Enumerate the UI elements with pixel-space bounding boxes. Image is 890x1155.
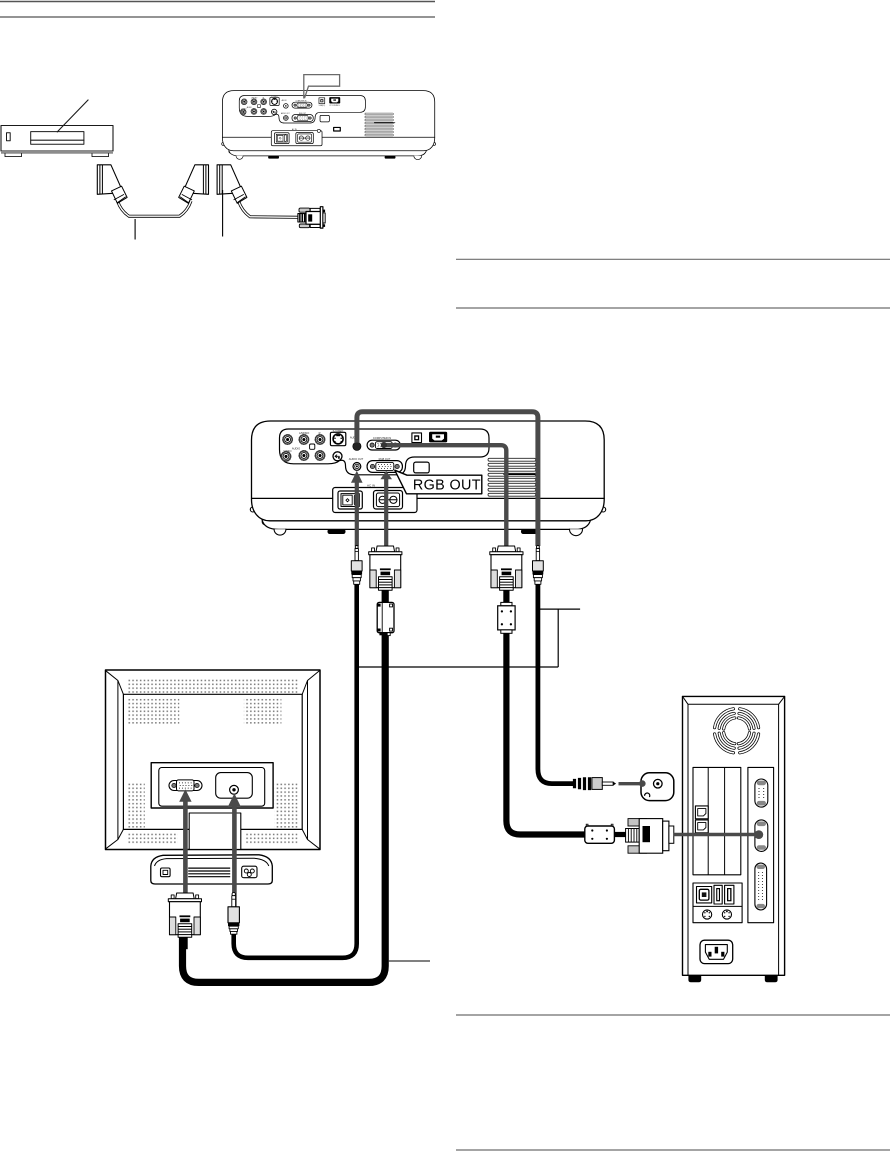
PC expansion slot area — [693, 767, 741, 874]
ferrite core 3 — [498, 602, 515, 633]
SCART cable (U between connectors) — [118, 201, 192, 216]
RGB cable callout line — [389, 960, 430, 962]
right column rule 4 (bottom) — [456, 1149, 890, 1151]
stand vents — [188, 868, 230, 877]
PC fan grille — [715, 709, 759, 753]
VGA plug 3 — [490, 546, 523, 602]
VGA plug 2 — [369, 546, 402, 602]
PC serial port — [755, 779, 768, 807]
right column rule 1 — [456, 258, 890, 260]
VCR/DVD player — [1, 126, 113, 157]
monitor outer frame — [106, 670, 321, 850]
header rule top — [0, 1, 435, 3]
vent dots left side patch — [128, 784, 145, 829]
projector rear view (top diagram) — [222, 91, 436, 160]
VCR callout line — [57, 100, 89, 133]
audio plug 4 — [533, 546, 544, 585]
vent dots bottom band right — [246, 833, 298, 844]
VGA plug to PC (pointing right) — [614, 819, 674, 854]
PC PS/2 ports — [703, 910, 732, 919]
VGA adapter plug — [298, 207, 325, 228]
RGB cable from COMPUTER IN right and down — [384, 445, 506, 546]
stand base — [151, 855, 272, 884]
RGB OUT label box with pointer — [395, 470, 482, 494]
vent dots top band — [128, 679, 298, 693]
monitor VGA port — [169, 780, 202, 791]
audio cable from AUDIO IN up over to PC side — [357, 412, 538, 546]
PC ethernet jack 1 — [695, 806, 708, 819]
PC case — [683, 696, 785, 975]
arrow into AUDIO OUT — [351, 471, 363, 546]
audio plug at monitor — [228, 892, 239, 934]
header rule lower — [0, 16, 435, 18]
SCART connector right (mirrored) — [179, 165, 209, 204]
PC port column — [748, 767, 774, 922]
monitor VGA arrow — [179, 789, 191, 894]
monitor bevel lines — [105, 670, 320, 849]
gray link VGA plug to PC port — [674, 833, 755, 837]
monitor audio port — [216, 773, 253, 799]
PC feet — [688, 975, 701, 982]
projector rear view (middle diagram) — [250, 421, 605, 536]
VGA plug at monitor — [168, 893, 201, 949]
audio plug 1 — [351, 546, 362, 585]
stand button — [161, 868, 171, 877]
bracket callout (cables not supplied) — [358, 609, 580, 667]
audio plug to PC (pointing right) — [573, 777, 616, 790]
arrow into RGB OUT — [380, 471, 392, 546]
RGB cable plug3 to PC — [506, 590, 585, 835]
stand power inlet — [242, 866, 257, 878]
PC ethernet jack 2 — [695, 820, 708, 833]
COMPUTER IN plug blob — [381, 442, 387, 448]
PC VGA port — [755, 820, 768, 852]
callout box to COMPUTER IN port — [304, 75, 340, 99]
SCART connector left — [97, 165, 127, 204]
monitor inner panel — [123, 694, 302, 829]
right column rule 2 — [456, 307, 890, 309]
PC power inlet — [700, 940, 733, 963]
PC parallel port — [755, 863, 767, 910]
RGB cable plug2 to monitor — [183, 590, 386, 982]
SCART cable callout line — [134, 219, 136, 240]
vent dots left patch — [128, 699, 179, 725]
PC USB-B port — [697, 887, 712, 903]
vent dots right side patch — [275, 784, 298, 829]
vent dots right patch — [244, 699, 282, 725]
PC USB/PS2 block — [693, 883, 742, 923]
ferrite core 2 — [377, 602, 394, 635]
ferrite core at PC VGA cable — [585, 824, 615, 843]
PC USB-A ports — [714, 885, 722, 904]
AUDIO IN jack plug blob — [353, 443, 361, 451]
audio cable plug4 to PC — [538, 582, 574, 784]
stand mount — [189, 813, 241, 849]
monitor audio arrow — [228, 793, 241, 908]
audio cable plug1 to monitor — [234, 582, 357, 958]
SCART adapter callout line — [222, 190, 224, 237]
PC audio jack icon — [639, 773, 674, 801]
gray link audio plug to jack — [619, 782, 641, 785]
vent dots bottom band left — [128, 833, 178, 844]
SCART adapter connector — [217, 165, 247, 204]
monitor — [105, 670, 320, 884]
connector recess outer — [151, 763, 273, 808]
connector recess inner — [159, 768, 265, 807]
right column rule 3 — [456, 1014, 890, 1016]
svg-text:RGB OUT: RGB OUT — [413, 478, 481, 494]
PC tower — [683, 696, 785, 982]
SCART adapter cable — [239, 201, 299, 217]
